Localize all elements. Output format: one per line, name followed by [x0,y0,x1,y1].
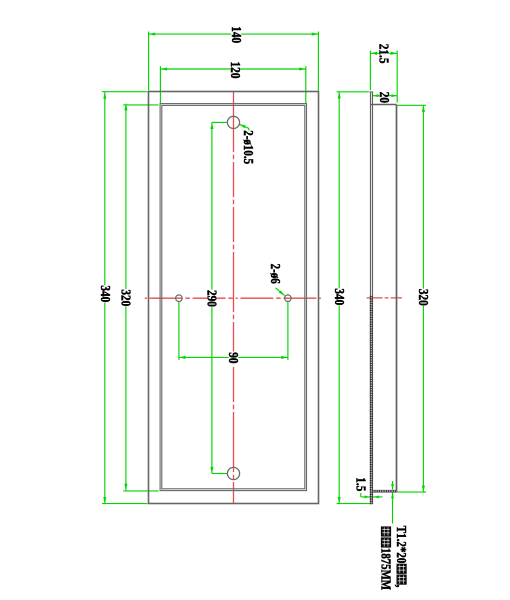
svg-text:340: 340 [98,285,113,302]
svg-text:290: 290 [204,290,219,307]
svg-text:T1.2*20: T1.2*20 [394,526,409,564]
svg-text:2-ø10.5: 2-ø10.5 [241,130,256,164]
svg-text:90: 90 [226,352,241,363]
svg-text:120: 120 [228,62,243,79]
svg-text:,: , [394,585,409,588]
svg-text:320: 320 [416,289,431,306]
svg-text:340: 340 [332,288,347,305]
svg-text:20: 20 [377,92,392,103]
svg-text:320: 320 [118,289,133,306]
svg-text:1.5: 1.5 [353,477,368,491]
svg-text:140: 140 [229,26,244,43]
svg-text:21.5: 21.5 [376,44,391,64]
svg-text:1875MM: 1875MM [378,548,393,591]
svg-text:2-ø6: 2-ø6 [268,264,283,284]
